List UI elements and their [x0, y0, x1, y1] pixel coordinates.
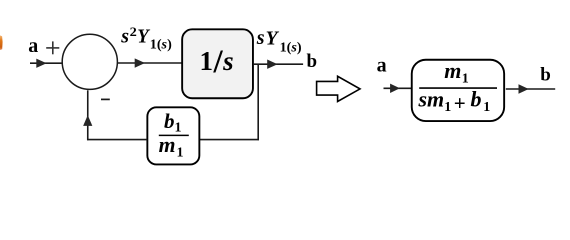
- minus sign: [101, 98, 110, 100]
- summing junction circle: [62, 34, 117, 89]
- svg-text:s: s: [256, 27, 265, 49]
- arrowhead on right output: [519, 84, 529, 93]
- wire: feedback bottom right segment: [200, 139, 259, 141]
- plus sign at summing junction: [46, 41, 59, 54]
- svg-text:1(s): 1(s): [150, 36, 172, 51]
- svg-text:m: m: [444, 58, 461, 83]
- fraction bar of m1/(sm1+b1): [419, 87, 497, 89]
- arrowhead on wire to 1/s: [135, 58, 145, 67]
- svg-text:1: 1: [462, 72, 469, 87]
- svg-text:1(s): 1(s): [280, 39, 302, 54]
- fraction bar of b1/m1: [159, 134, 189, 136]
- svg-text:sm: sm: [418, 87, 445, 112]
- wire: block 1/s to output b: [254, 63, 303, 65]
- svg-text:b: b: [540, 65, 551, 86]
- svg-text:1: 1: [444, 100, 451, 115]
- svg-text:b: b: [164, 109, 175, 133]
- wire: feedback vertical into summing junction: [87, 90, 89, 140]
- svg-text:a: a: [28, 35, 38, 57]
- svg-text:2: 2: [130, 25, 137, 39]
- svg-text:+: +: [454, 91, 466, 115]
- wire: right output b: [506, 88, 555, 90]
- arrowhead up into summing junction: [83, 115, 92, 126]
- arrowhead on output wire: [267, 60, 277, 69]
- svg-text:a: a: [377, 54, 387, 76]
- block m1/(sm1+b1): [412, 60, 504, 121]
- svg-text:Y: Y: [137, 26, 150, 48]
- svg-text:Y: Y: [266, 27, 280, 49]
- svg-text:1: 1: [177, 146, 184, 161]
- block b1/m1: [147, 107, 199, 164]
- arrowhead on input wire: [36, 59, 46, 68]
- svg-text:b: b: [307, 51, 318, 72]
- wire: summing junction to block 1/s: [118, 62, 182, 64]
- wire: input a into summing junction: [30, 62, 62, 64]
- svg-text:1: 1: [175, 120, 182, 135]
- svg-text:s: s: [120, 26, 129, 48]
- wire: feedback takeoff vertical: [257, 64, 259, 140]
- block 1/s: [182, 29, 253, 98]
- label s^2 Y1(s): [120, 25, 172, 51]
- wire: feedback bottom left segment: [87, 139, 147, 141]
- arrowhead on right input: [390, 84, 400, 93]
- svg-text:1/s: 1/s: [200, 44, 235, 80]
- svg-text:1: 1: [483, 100, 490, 115]
- label s Y1(s): [256, 27, 302, 54]
- equivalence hollow arrow: [317, 76, 360, 101]
- svg-text:m: m: [159, 132, 176, 157]
- wire: right input a: [384, 87, 412, 89]
- svg-text:b: b: [471, 87, 482, 112]
